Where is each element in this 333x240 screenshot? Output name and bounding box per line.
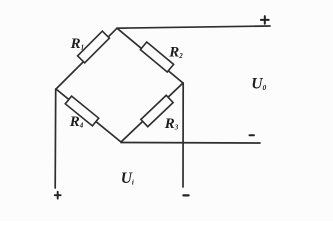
wire bottom vertex to U0 minus terminal (121, 142, 260, 145)
svg-text:R1: R1 (70, 36, 85, 52)
wire bridge arm R4 (left vertex to bottom vertex) (56, 89, 121, 142)
wire bridge arm R3 (bottom vertex to right vertex) (121, 83, 183, 142)
wire bridge arm R2 (top vertex to right vertex) (117, 28, 183, 83)
wire bridge arm R1 (top vertex to left vertex) (56, 28, 117, 89)
minus terminal of U0 output (250, 134, 254, 136)
minus terminal of Ui input (183, 194, 188, 196)
resistor R1 (78, 31, 110, 63)
wire right vertex down to Ui minus terminal (182, 83, 184, 187)
plus terminal of U0 output (261, 19, 269, 21)
resistor R4 (65, 96, 98, 126)
wire left vertex down to Ui plus terminal (54, 89, 57, 188)
svg-text:R2: R2 (168, 45, 183, 61)
wire top vertex to U0 plus terminal (117, 26, 270, 28)
svg-text:R3: R3 (164, 116, 179, 132)
svg-text:Ui: Ui (121, 170, 134, 187)
plus terminal of Ui input (55, 194, 61, 196)
resistor R3 (141, 95, 173, 126)
svg-text:U0: U0 (251, 76, 266, 93)
resistor R2 (140, 42, 173, 72)
